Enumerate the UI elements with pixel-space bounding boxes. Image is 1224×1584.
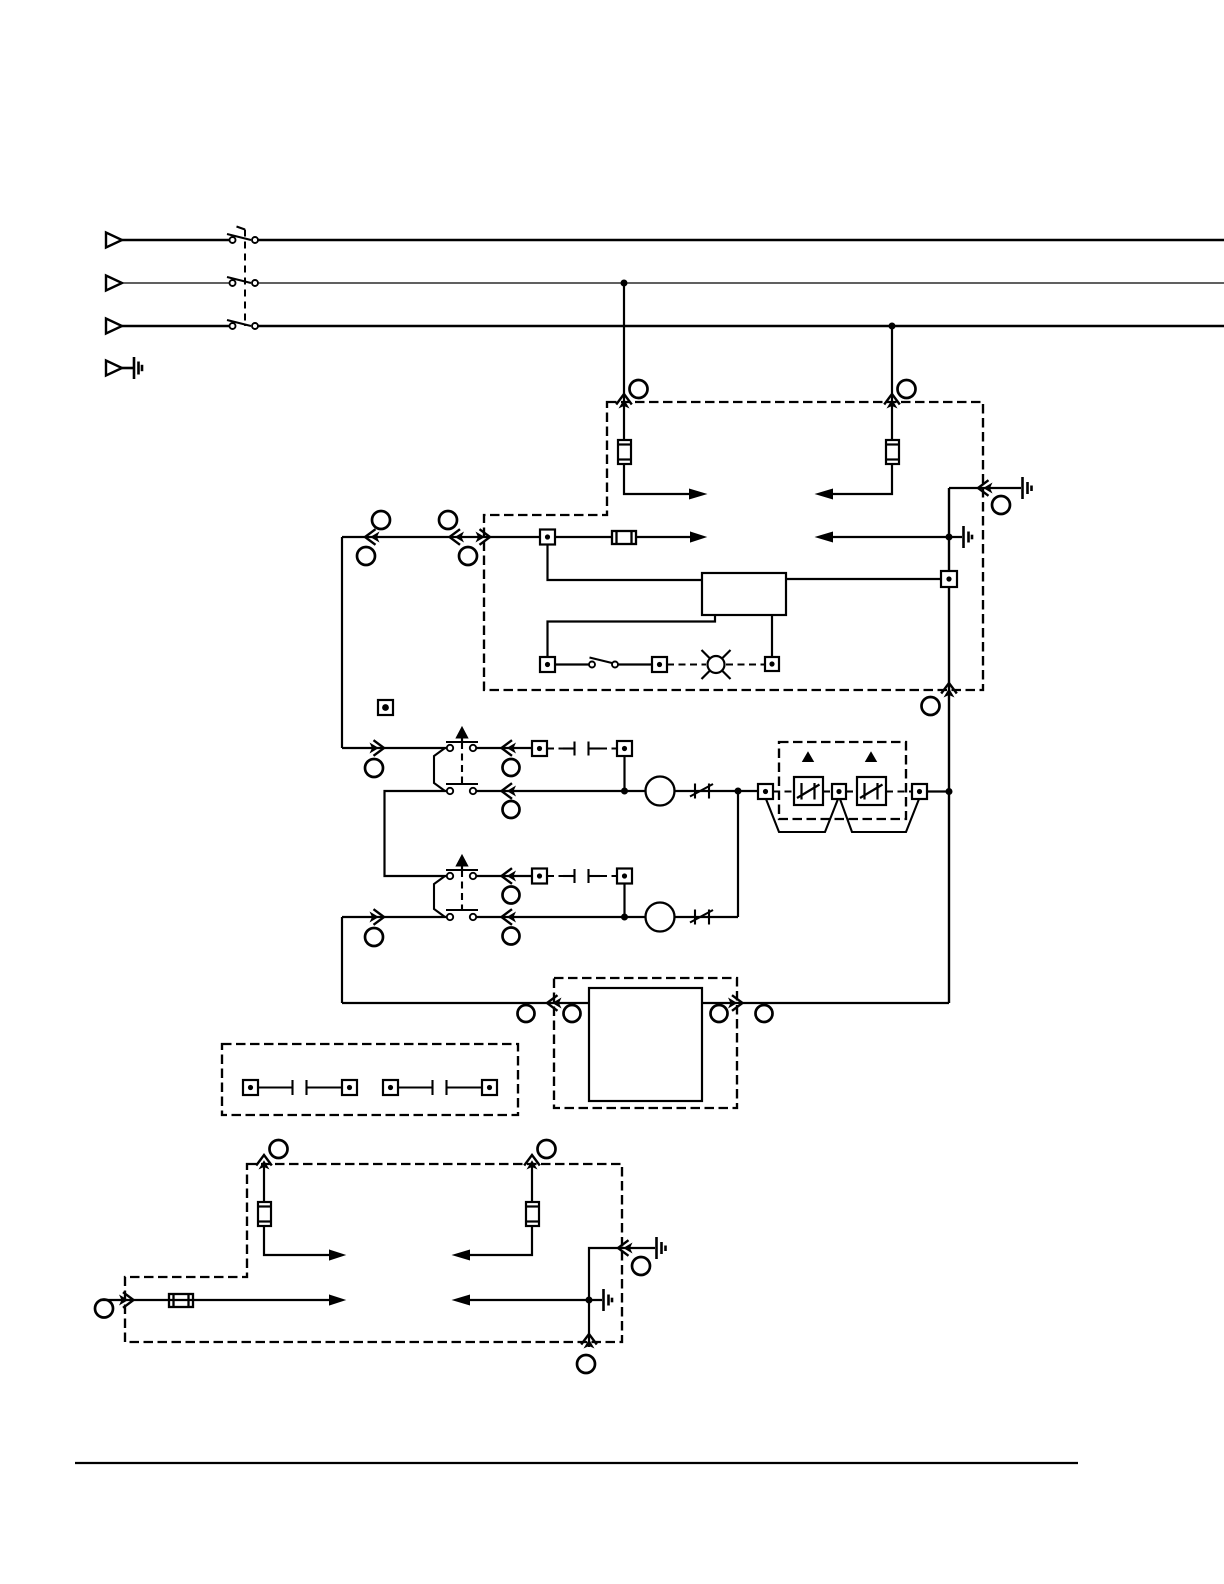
wire motor 2 output: [675, 916, 739, 918]
wire F1 output arrow: [624, 464, 690, 494]
wire relay K1 bottom to switch row: [548, 615, 716, 657]
wire number circle row 3 right: [503, 887, 520, 904]
cable connector pair LS2: [398, 1080, 482, 1095]
node L2 tap: [622, 281, 627, 286]
wire dashed lamp to terminal T4: [726, 663, 765, 665]
wire left vertical to transformer row: [341, 917, 343, 1003]
connector chevrons supply row: [119, 1292, 134, 1308]
terminal square LS1 right: [342, 1080, 357, 1095]
control unit dashed enclosure: [484, 402, 983, 690]
terminal square T2: [540, 657, 555, 672]
wire relay K1 pin to T4: [771, 615, 773, 657]
disconnect switch pole 2: [227, 277, 258, 286]
heater element 1 skirt: [766, 799, 838, 832]
wire heater output to right bus: [927, 790, 949, 792]
connector chevrons bottom exit: [581, 1334, 597, 1349]
connector chevrons motor 2 row: [502, 909, 517, 925]
wire dashed heater linkage: [773, 790, 912, 792]
wire F3 output arrow: [636, 536, 691, 538]
node L3 tap: [890, 324, 895, 329]
wire row 1 feed: [342, 747, 446, 749]
connector chevrons to ground G1: [978, 480, 993, 496]
wire T1 down to relay K1: [548, 545, 703, 581]
marker square with dot: [378, 700, 393, 715]
wire row 3 drop to motor 2 row: [623, 884, 625, 918]
bottom rule: [75, 1462, 1078, 1464]
connector chevrons transformer left: [547, 995, 562, 1011]
terminal square row 1 end: [617, 741, 632, 756]
outdoor unit dashed enclosure: [125, 1164, 622, 1342]
fuse F3: [612, 531, 636, 544]
wire motor 1 output: [675, 790, 759, 792]
wire number circle row 1 right: [503, 759, 520, 776]
node right bus ground tap: [947, 535, 952, 540]
terminal square on right bus: [941, 571, 957, 587]
terminal square row 1: [532, 741, 547, 756]
cable break symbol motor 1: [690, 784, 713, 799]
node heater output on right bus: [947, 789, 952, 794]
trip indicator triangle OL2: [867, 753, 876, 761]
wire dashed T3 to lamp: [667, 663, 706, 665]
wire F5 output arrow: [469, 1226, 532, 1255]
terminal square T1: [540, 530, 555, 545]
wire number circle bottom exit: [577, 1355, 595, 1373]
wire number circle at F2 entry: [898, 380, 916, 398]
terminal square LS2 left: [383, 1080, 398, 1095]
terminal square heater left: [758, 784, 773, 799]
wire neutral return arrow: [832, 536, 962, 538]
node motor 2 input: [622, 915, 627, 920]
arrow supply row right tip: [330, 1296, 343, 1304]
wire relay K1 to right bus terminal: [786, 578, 941, 580]
connector chevrons motor 1 row: [502, 783, 517, 799]
wire number circle row 4 connector: [365, 928, 383, 946]
overload element OL1: [794, 777, 823, 805]
wire number circle transformer left inner: [564, 1005, 581, 1022]
trip indicator triangle OL1: [804, 753, 813, 761]
wire number circle below feed chevrons: [357, 547, 375, 565]
wire F4 output arrow: [264, 1226, 330, 1255]
ground G4: [604, 1289, 613, 1311]
wire number circle below entry connector: [459, 547, 477, 565]
wire L2 drop to fuse F1: [623, 283, 625, 440]
wire power line L1: [122, 239, 1224, 242]
wire number circle supply row left: [95, 1300, 113, 1318]
cable connector pair row 3: [547, 869, 617, 883]
ground symbol at input: [122, 357, 142, 379]
wire F4 drop: [263, 1164, 265, 1202]
wire T2 to control switch: [555, 663, 589, 665]
fuse F5: [526, 1202, 539, 1226]
wire number circle at F1 entry: [630, 380, 648, 398]
connector chevrons at F5 entry: [524, 1155, 540, 1170]
connector chevrons to ground G3: [618, 1240, 633, 1256]
wire row 1 drop to motor row: [623, 756, 625, 791]
heater element 2 skirt: [840, 799, 919, 832]
wire T1 to fuse F3: [555, 536, 612, 538]
terminal square LS2 right: [482, 1080, 497, 1095]
wire number circle above feed chevrons: [372, 511, 390, 529]
wire number circle at G3: [632, 1257, 650, 1275]
relay K1 box: [702, 573, 786, 615]
disconnect switch gang link: [237, 227, 246, 327]
ground G1: [1023, 477, 1032, 499]
connector chevrons transformer right: [728, 995, 743, 1011]
transformer box: [589, 988, 702, 1101]
wire number circle transformer right outer: [756, 1005, 773, 1022]
disconnect switch pole 1: [227, 234, 258, 243]
wire PS1 pole2 jumper to PS2: [385, 791, 447, 876]
wire motor 2 row: [477, 916, 646, 918]
overload heater dashed box: [779, 742, 906, 819]
node heater string junction: [736, 789, 741, 794]
wire transformer row right: [702, 1002, 949, 1004]
connector chevrons row 1: [370, 740, 385, 756]
wire number circle transformer right inner: [711, 1005, 728, 1022]
connector chevrons row 4: [370, 909, 385, 925]
overload element OL2: [857, 777, 886, 805]
input terminal arrow L3: [106, 319, 122, 334]
connector chevrons on feed row left: [365, 529, 380, 545]
wire motor 2 output riser: [737, 791, 739, 917]
connector chevrons at F4 entry: [256, 1155, 272, 1170]
indicator lamp: [702, 650, 731, 679]
fuse F2: [886, 440, 899, 464]
cable break symbol motor 2: [690, 910, 713, 925]
control switch SW1: [589, 658, 618, 668]
node motor 1 input: [622, 789, 627, 794]
terminal square heater middle: [832, 784, 846, 799]
wire power line L3: [122, 325, 1224, 328]
motor M1: [646, 777, 675, 806]
terminal square LS1 left: [243, 1080, 258, 1095]
wire chassis ground branch top right: [949, 487, 1021, 489]
node neutral ground tap: [587, 1298, 592, 1303]
pressure switch PS2: [434, 856, 478, 920]
wire row 1 to connector: [477, 747, 533, 749]
wire number circle above entry connector: [439, 511, 457, 529]
connector chevrons row 1 right: [502, 740, 517, 756]
wire switch to terminal T3: [618, 663, 652, 665]
wire ground branch bottom unit: [589, 1248, 655, 1347]
transformer dashed enclosure: [554, 978, 737, 1108]
wire row 3 to connector: [477, 875, 533, 877]
wire left feed vertical to row 1: [341, 537, 343, 748]
input terminal arrow L2: [106, 276, 122, 291]
wire right bus vertical: [948, 488, 950, 1003]
limit switch dashed enclosure: [222, 1044, 518, 1115]
disconnect switch pole 3: [227, 320, 258, 329]
wire supply row with fuse F6: [100, 1299, 330, 1301]
terminal square T4: [765, 657, 779, 671]
fuse F6: [169, 1294, 193, 1307]
ground G3: [657, 1237, 666, 1259]
connector chevrons row 3 right: [502, 868, 517, 884]
wire F2 output arrow: [832, 464, 892, 494]
wire number circle row 1 connector: [365, 759, 383, 777]
wire number circle motor 2 row: [503, 928, 520, 945]
wire L3 drop to fuse F2: [891, 326, 893, 440]
wire number circle at fuse F5 entry: [538, 1140, 556, 1158]
wire row 4 feed: [342, 916, 446, 918]
connector chevrons at F1 entry: [616, 394, 632, 409]
terminal square heater right: [912, 784, 927, 799]
fuse F4: [258, 1202, 271, 1226]
connector chevrons at F2 entry: [884, 394, 900, 409]
terminal square T3: [652, 657, 667, 672]
terminal square row 3: [532, 869, 547, 884]
wire number circle at fuse F4 entry: [270, 1140, 288, 1158]
connector chevrons right bus exits box: [941, 683, 957, 698]
terminal square row 3 end: [617, 869, 632, 884]
cable connector pair row 1: [547, 742, 617, 756]
pressure switch PS1: [434, 728, 478, 794]
wire number circle at G1: [992, 496, 1010, 514]
wire power line L2: [122, 282, 1224, 284]
wire number circle at right bus exit: [922, 697, 940, 715]
wire transformer row left: [342, 1002, 589, 1004]
ground G2: [964, 526, 973, 548]
wire F5 drop: [531, 1164, 533, 1202]
wire number circle transformer left outer: [518, 1005, 535, 1022]
wire neutral row to ground G4: [469, 1299, 602, 1301]
input terminal arrow ground: [106, 361, 122, 376]
motor M2: [646, 903, 675, 932]
connector pair at box entry: [450, 529, 491, 545]
wire motor 1 row: [477, 790, 646, 792]
cable connector pair LS1: [258, 1080, 342, 1095]
wire number circle motor 1 row: [503, 801, 520, 818]
fuse F1: [618, 440, 631, 464]
wire control feed row: [342, 536, 540, 538]
input terminal arrow L1: [106, 233, 122, 248]
